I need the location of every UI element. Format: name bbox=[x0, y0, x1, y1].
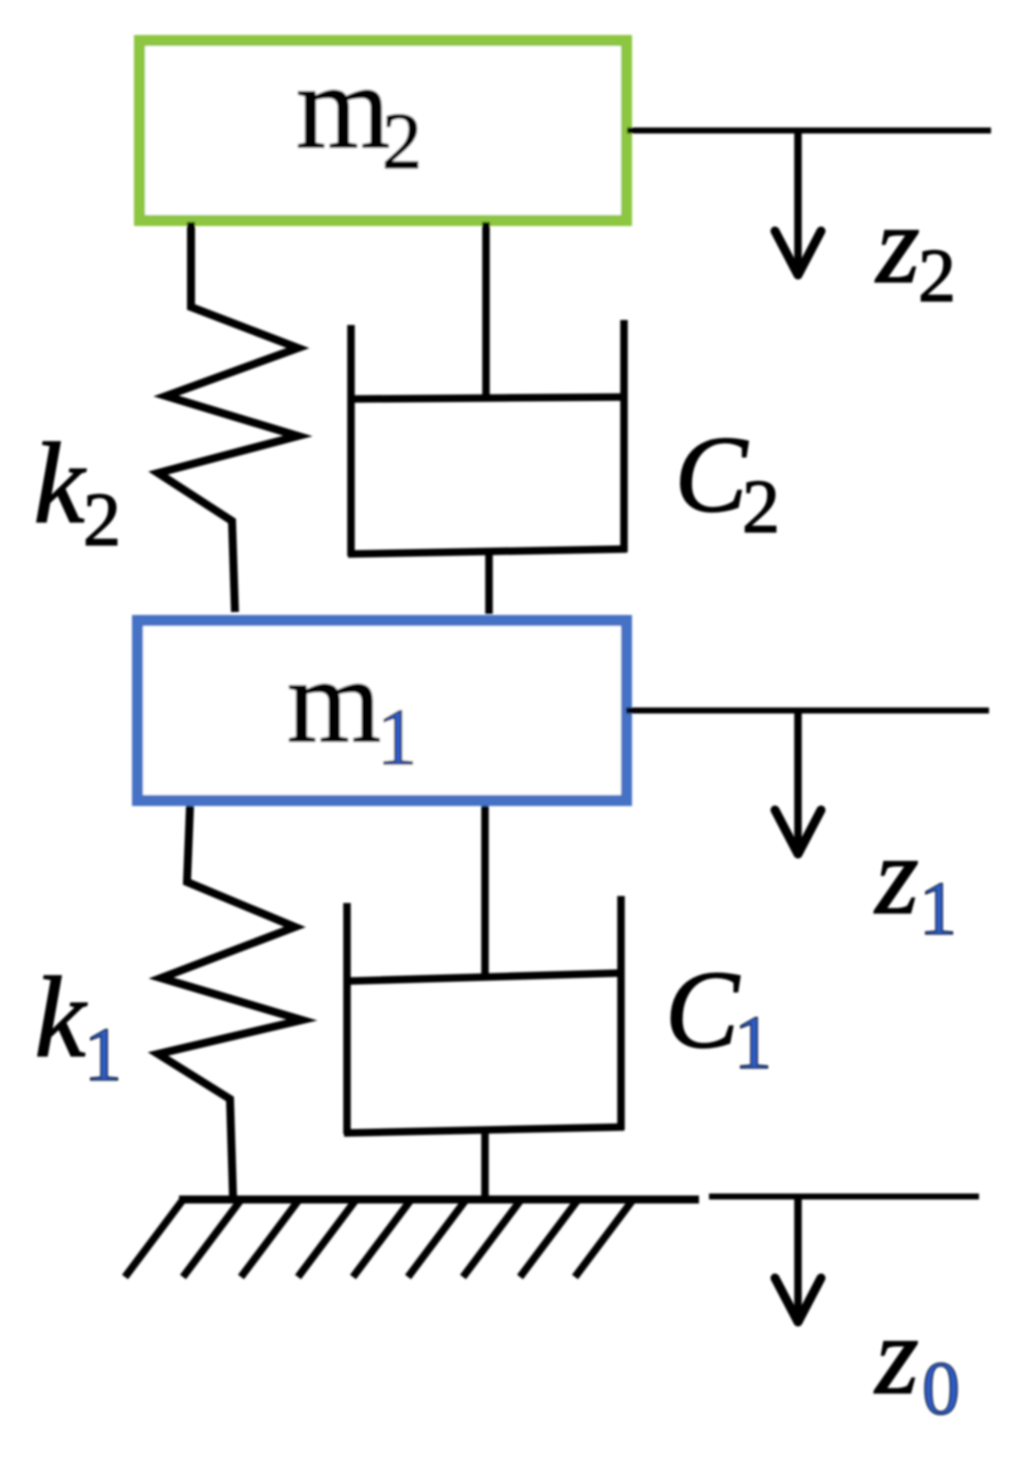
svg-text:1: 1 bbox=[734, 1001, 772, 1085]
svg-text:0: 0 bbox=[922, 1347, 960, 1431]
svg-text:C: C bbox=[665, 949, 741, 1072]
svg-text:m: m bbox=[296, 40, 390, 174]
svg-text:m: m bbox=[287, 634, 381, 768]
svg-text:2: 2 bbox=[742, 465, 780, 549]
svg-text:z: z bbox=[873, 814, 919, 938]
svg-text:k: k bbox=[33, 420, 86, 547]
svg-text:z: z bbox=[873, 1294, 919, 1418]
svg-text:k: k bbox=[34, 954, 87, 1081]
svg-text:z: z bbox=[874, 183, 920, 307]
svg-text:1: 1 bbox=[84, 1013, 122, 1097]
svg-text:1: 1 bbox=[919, 867, 957, 951]
svg-text:1: 1 bbox=[377, 694, 417, 782]
svg-text:2: 2 bbox=[382, 98, 422, 186]
svg-text:2: 2 bbox=[918, 234, 956, 318]
svg-text:2: 2 bbox=[83, 478, 121, 562]
svg-text:C: C bbox=[675, 414, 749, 535]
